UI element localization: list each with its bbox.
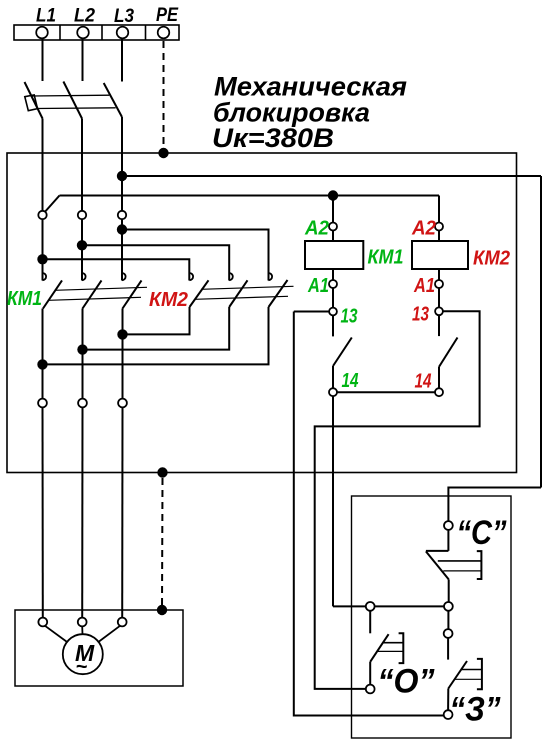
- terminal strip XT1: [14, 25, 179, 40]
- wire C bottom to Z top: [447, 611, 449, 629]
- wire KM2 pole2 output: [83, 307, 230, 350]
- circuit breaker QF pole 3 blade: [104, 83, 122, 117]
- contactor KM1 main contact hook 2: [82, 273, 86, 280]
- contactor KM1 blade 1: [43, 280, 62, 308]
- wire phase L3 vertical upper: [121, 117, 123, 211]
- contactor KM2 linkage line upper: [201, 286, 294, 289]
- wire L1 vertical mid: [42, 219, 44, 281]
- contactor KM1 main contact hook 3: [122, 273, 126, 280]
- svg-text:КМ2: КМ2: [473, 248, 510, 270]
- terminal L1: [36, 27, 48, 39]
- svg-text:L2: L2: [74, 6, 95, 27]
- pin 13 KM2: [435, 307, 443, 315]
- wire motor lead 3: [121, 407, 123, 617]
- pin 14 KM2: [435, 388, 443, 396]
- svg-text:А2: А2: [304, 218, 329, 240]
- node KM1 input terminal 3: [118, 211, 126, 219]
- contactor KM1 blade 3: [123, 280, 142, 308]
- button O plunger: [378, 633, 404, 663]
- wire coil feed diagonal from L1: [45, 196, 60, 213]
- wire phase L1 vertical upper: [42, 119, 44, 212]
- node O top: [366, 602, 375, 611]
- contactor KM2 linkage line lower: [195, 296, 288, 299]
- wire blade to 14 KM2: [438, 367, 440, 389]
- svg-text:А1: А1: [413, 275, 435, 297]
- wire blade to 14 KM1: [332, 366, 334, 388]
- button C (stop) top terminal: [444, 521, 453, 530]
- junction L3 control feed: [117, 171, 127, 181]
- junction coil KM1 A2 feed: [328, 190, 338, 200]
- motor lead-in 1: [45, 626, 71, 645]
- svg-text:КМ1: КМ1: [7, 288, 42, 310]
- junction L1 to KM2 pole1: [37, 254, 47, 264]
- svg-text:13: 13: [412, 304, 429, 326]
- svg-text:L3: L3: [114, 6, 134, 27]
- junction PE to motor box: [157, 605, 167, 615]
- wire L2 to KM2 pole2: [82, 245, 229, 280]
- node output terminal 2: [78, 399, 87, 408]
- terminal L2: [77, 27, 89, 39]
- svg-text:13: 13: [341, 306, 358, 328]
- wire 13 KM1 to button Z: [294, 312, 444, 716]
- wire KM2 pole3 output: [43, 307, 269, 364]
- wire L2 drop: [82, 39, 84, 82]
- coil KM2: [438, 231, 440, 242]
- svg-text:А1: А1: [307, 275, 329, 297]
- wire L1 drop: [42, 39, 44, 82]
- circuit breaker QF tie bar lower: [37, 107, 116, 110]
- motor box: [15, 610, 183, 686]
- aux contact KM2 blade: [439, 338, 457, 367]
- junction L3 to KM2 pole3: [117, 224, 127, 234]
- pin 14 KM1: [329, 388, 337, 396]
- motor lead-in 2: [81, 626, 83, 634]
- motor terminal 2: [78, 618, 87, 627]
- wire L1 vertical lower: [42, 309, 44, 399]
- wire L3 to KM2 pole3: [122, 230, 269, 281]
- svg-text:14: 14: [342, 370, 359, 392]
- node KM1 input terminal: [38, 211, 46, 219]
- motor lead-in 3: [95, 626, 120, 645]
- wire 14 KM1 to 14 KM2: [337, 391, 435, 393]
- wire coil feed KM2 drop: [438, 196, 440, 223]
- coil KM1 A2 lead: [332, 196, 334, 223]
- node Z top: [444, 629, 453, 638]
- wire motor lead 1: [42, 407, 44, 617]
- junction PE to frame bottom: [157, 467, 167, 477]
- svg-text:КМ1: КМ1: [368, 247, 404, 269]
- svg-text:“О”: “О”: [378, 663, 435, 701]
- motor M1: [63, 634, 103, 674]
- wire KM2 pole1 output: [123, 307, 190, 334]
- node output terminal 3: [118, 399, 127, 408]
- contactor KM2 main contact hook 3: [269, 273, 273, 280]
- pin A2 KM1: [329, 223, 337, 231]
- panel frame: [7, 153, 517, 473]
- wire 14 KM1 down to node: [332, 396, 334, 606]
- svg-text:L1: L1: [36, 6, 56, 27]
- svg-text:“З”: “З”: [450, 691, 501, 729]
- circuit breaker QF handle: [25, 95, 38, 111]
- pin 13 KM1: [329, 308, 337, 316]
- junction KM2 pole2 to column2: [77, 344, 87, 354]
- coil KM1: [332, 231, 334, 242]
- button Z (close): [448, 638, 467, 710]
- node O bottom: [366, 685, 375, 694]
- button Z plunger: [455, 659, 482, 689]
- wire PE dashed drop: [163, 41, 165, 153]
- aux contact KM2 fixed: [438, 315, 440, 336]
- terminal PE: [158, 27, 170, 39]
- wire A1 to 13 KM1: [332, 288, 334, 308]
- svg-text:~: ~: [76, 656, 88, 678]
- wire PE dashed frame to motor: [161, 478, 164, 610]
- wire control feed to stop button: [448, 488, 541, 522]
- aux contact KM1 blade: [333, 338, 352, 367]
- contactor KM1 linkage line lower: [49, 297, 142, 300]
- circuit breaker QF pole 2 blade: [63, 82, 82, 119]
- junction L2 to KM2 pole2: [77, 240, 87, 250]
- contactor KM2 main contact hook 2: [229, 273, 233, 280]
- wire control feed right vertical: [540, 176, 542, 488]
- junction PE to frame top: [158, 148, 168, 158]
- svg-text:“С”: “С”: [457, 514, 507, 552]
- svg-text:КМ2: КМ2: [149, 289, 188, 311]
- node Z bottom: [444, 710, 453, 719]
- button C plunger: [438, 551, 482, 579]
- svg-text:PE: PE: [156, 5, 179, 26]
- wire L3 vertical mid: [121, 219, 123, 281]
- wire A1 to 13 KM2: [438, 288, 440, 307]
- contactor KM1 blade 2: [83, 280, 102, 308]
- contactor KM1 main contact hook 1: [43, 273, 47, 280]
- button O (open): [370, 611, 388, 685]
- wire phase L2 vertical upper: [81, 119, 83, 212]
- wire L1 to KM2 pole1: [43, 259, 190, 280]
- junction KM2 pole3 to column1: [37, 359, 47, 369]
- control box: [352, 496, 512, 738]
- wire 13 KM2 branch right: [315, 311, 480, 689]
- contactor KM2 blade 2: [229, 280, 247, 307]
- junction KM2 pole1 to column3: [117, 329, 127, 339]
- motor terminal 3: [118, 618, 127, 627]
- wire L3 vertical lower: [122, 309, 124, 399]
- wire L2 vertical lower: [82, 309, 84, 399]
- wire L3 control feed horizontal: [122, 175, 541, 177]
- terminal L3: [117, 27, 129, 39]
- pin A1 KM2: [435, 280, 443, 288]
- motor terminal 1: [38, 618, 47, 627]
- node C bottom: [444, 602, 453, 611]
- wire node horizontal: [333, 605, 444, 607]
- wire coil feed horizontal: [60, 195, 440, 197]
- svg-text:14: 14: [415, 371, 432, 393]
- svg-text:Uк=380В: Uк=380В: [212, 123, 334, 153]
- contactor KM2 blade 3: [269, 280, 288, 307]
- circuit breaker QF tie bar upper: [32, 94, 110, 97]
- pin A2 KM2: [435, 223, 443, 231]
- wire 13 KM1 branch left: [294, 311, 329, 313]
- wire L3 drop: [121, 39, 123, 82]
- contactor KM2 blade 1: [190, 280, 209, 307]
- wire motor lead 2: [81, 407, 83, 617]
- contactor KM2 main contact hook 1: [190, 273, 194, 280]
- aux contact KM1 fixed: [332, 315, 334, 336]
- pin A1 KM1: [329, 280, 337, 288]
- contactor KM1 linkage line upper: [55, 287, 148, 290]
- node KM1 input terminal 2: [78, 211, 86, 219]
- circuit breaker QF pole 1 blade: [25, 82, 43, 119]
- node output terminal 1: [38, 399, 47, 408]
- button C contact: [426, 530, 449, 602]
- svg-text:А2: А2: [411, 218, 436, 240]
- wire L2 vertical mid: [81, 219, 83, 281]
